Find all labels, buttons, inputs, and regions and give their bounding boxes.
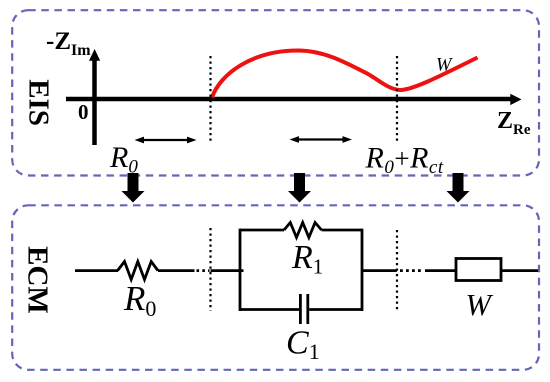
double-headed arrow R0 span: [135, 137, 197, 144]
wire (RC box to dotted break 2): [362, 269, 394, 272]
svg-text:EIS: EIS: [23, 79, 55, 126]
y-axis label -Z_Im: [46, 28, 91, 59]
RC parallel box top edge right part: [322, 229, 363, 232]
flow arrow 3: [447, 173, 470, 203]
x-axis label Z_Re: [497, 108, 531, 138]
double-headed arrow Rct span: [290, 136, 353, 143]
RC parallel box top edge: [240, 229, 284, 232]
x-axis (horizontal axis line with arrowhead): [66, 94, 522, 105]
RC parallel box bottom edge right part: [309, 308, 362, 311]
label R0 (top panel): [109, 141, 138, 178]
panel label EIS: [23, 79, 55, 126]
label C1: [286, 325, 320, 365]
wire (left lead): [75, 269, 118, 272]
wire (dotted break to RC box): [211, 269, 244, 272]
label R0+Rct: [365, 142, 444, 179]
dotted guide line 2 (at R0+Rct): [396, 56, 398, 142]
dotted guide line 3: [209, 228, 211, 311]
svg-text:0: 0: [78, 100, 89, 124]
RC parallel box bottom edge left part: [240, 308, 299, 311]
resistor R1 (zigzag on top branch): [284, 223, 322, 238]
wire (dotted break 2 to W box): [425, 269, 456, 272]
flow arrow 2: [288, 173, 311, 203]
ECM panel dashed border: [12, 205, 539, 369]
flow arrow 1 (EIS to ECM): [122, 173, 145, 203]
label R1: [291, 239, 323, 279]
resistor R0 (zigzag): [118, 262, 159, 280]
svg-text:W: W: [436, 56, 453, 76]
dotted guide line 4: [396, 230, 398, 311]
capacitor C1 (plates): [300, 294, 307, 324]
svg-text:ECM: ECM: [22, 246, 54, 314]
dotted guide line 1 (at R0): [209, 56, 211, 142]
label R0 (bottom panel): [123, 279, 156, 321]
Warburg element W (box): [456, 259, 501, 281]
svg-text:W: W: [466, 288, 494, 322]
RC parallel box left wire: [239, 229, 242, 311]
origin label 0: [78, 100, 89, 124]
wire (right lead): [501, 269, 538, 272]
y-axis (vertical axis line with arrowhead): [89, 49, 100, 145]
dotted wire break 2: [394, 269, 424, 272]
dotted wire break 1: [197, 269, 210, 272]
EIS panel dashed border: [12, 10, 539, 175]
label W (bottom panel): [466, 288, 494, 322]
panel label ECM: [22, 246, 54, 314]
RC parallel box right wire: [361, 229, 364, 311]
label W (Warburg region): [436, 56, 453, 76]
wire (R0 to dotted break): [158, 269, 195, 272]
Nyquist curve (red semicircle + Warburg tail): [212, 51, 478, 98]
